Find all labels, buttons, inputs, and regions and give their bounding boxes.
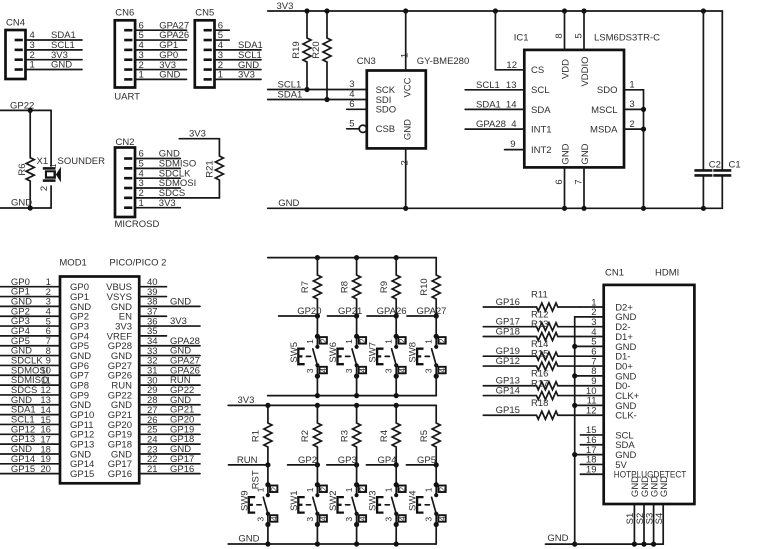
svg-text:1: 1 bbox=[49, 163, 58, 168]
svg-text:R1: R1 bbox=[251, 430, 262, 442]
svg-text:2: 2 bbox=[438, 338, 447, 343]
svg-text:3: 3 bbox=[629, 99, 634, 110]
svg-text:INT1: INT1 bbox=[531, 125, 552, 136]
svg-text:4: 4 bbox=[270, 516, 279, 521]
svg-text:GND: GND bbox=[238, 533, 259, 544]
svg-text:2: 2 bbox=[629, 119, 634, 130]
MOD1 pin 20 wire net GP15 bbox=[0, 464, 94, 480]
MOD1 pin 17 wire net GP13 bbox=[0, 434, 94, 450]
svg-text:C2: C2 bbox=[709, 159, 721, 170]
CN1 pin 19 stub bbox=[580, 465, 686, 481]
resistor R7 bbox=[300, 258, 321, 316]
svg-text:R15: R15 bbox=[531, 349, 548, 360]
CN1 pin 17 stub bbox=[572, 445, 636, 461]
svg-text:R9: R9 bbox=[379, 281, 390, 293]
svg-text:3: 3 bbox=[384, 368, 394, 373]
wire net RUN bbox=[229, 455, 271, 468]
svg-text:IC1: IC1 bbox=[514, 33, 529, 44]
svg-text:2: 2 bbox=[39, 186, 50, 191]
svg-text:3V3: 3V3 bbox=[159, 198, 176, 209]
IC1 pin 14 SDA wire net SDA1 bbox=[465, 100, 524, 111]
wire net GP17 with resistor R12 bbox=[483, 309, 580, 330]
svg-text:2: 2 bbox=[359, 486, 368, 491]
switch SW8 bbox=[408, 316, 448, 396]
capacitor C1 bbox=[713, 11, 740, 208]
svg-text:GP14: GP14 bbox=[496, 386, 520, 397]
switch SW1 bbox=[289, 465, 329, 544]
svg-text:2: 2 bbox=[438, 486, 447, 491]
svg-text:SW1: SW1 bbox=[289, 490, 300, 511]
junction dots on GND rail bbox=[403, 206, 706, 211]
wire net GP12 with resistor R15 bbox=[483, 349, 580, 370]
svg-text:SCL: SCL bbox=[531, 85, 549, 96]
resistor R6 bbox=[17, 110, 34, 208]
svg-text:2: 2 bbox=[398, 338, 407, 343]
svg-text:5: 5 bbox=[574, 33, 585, 38]
MOD1 pin 16 wire net GP12 bbox=[0, 424, 94, 440]
CN3 pin 6 SDO stub bbox=[347, 99, 367, 110]
svg-text:SDO: SDO bbox=[597, 85, 618, 96]
svg-text:RST: RST bbox=[251, 470, 262, 489]
CN1 pin 10 stub bbox=[580, 386, 639, 402]
svg-text:SDA1: SDA1 bbox=[278, 90, 303, 101]
svg-text:12: 12 bbox=[506, 60, 517, 71]
svg-text:GP5: GP5 bbox=[417, 455, 436, 466]
upper switch block bottom rail bbox=[268, 393, 437, 398]
svg-text:R4: R4 bbox=[379, 430, 390, 442]
svg-text:CN3: CN3 bbox=[357, 56, 376, 67]
resistor R5 bbox=[419, 405, 440, 465]
IC1 pin 6 GND wire bbox=[554, 167, 565, 208]
wire net GP21 bbox=[327, 306, 362, 319]
svg-text:1: 1 bbox=[384, 339, 394, 344]
IC1 pin 7 GND wire bbox=[573, 167, 584, 208]
svg-text:1: 1 bbox=[629, 80, 634, 91]
CN1 pin 8 stub bbox=[572, 366, 636, 382]
module CN3 GY-BME280 bbox=[357, 56, 469, 148]
svg-text:GP15: GP15 bbox=[70, 469, 94, 480]
wire net GP2 bbox=[288, 455, 320, 468]
CN1 pin 15 stub bbox=[580, 425, 633, 441]
power rail 3V3 (top) bbox=[268, 1, 723, 12]
svg-text:12: 12 bbox=[586, 406, 597, 417]
svg-text:4: 4 bbox=[438, 516, 447, 521]
resistor R1 bbox=[251, 405, 272, 465]
CN1 pin 9 stub bbox=[580, 376, 630, 392]
svg-text:1: 1 bbox=[218, 70, 223, 81]
ground rail GND (switch block) bbox=[228, 533, 436, 546]
IC1 pin 3 MSCL wire bbox=[624, 99, 646, 112]
MOD1 pin 27 wire net GP21 bbox=[108, 405, 200, 421]
MOD1 pin 34 wire net GPA28 bbox=[108, 336, 200, 352]
MOD1 pin 25 wire net GP19 bbox=[108, 424, 200, 440]
svg-text:GPA27: GPA27 bbox=[417, 306, 447, 317]
svg-text:4: 4 bbox=[319, 368, 328, 373]
CN3 pin 5 CSB stub with inversion bubble bbox=[347, 118, 367, 132]
MOD1 pin 24 wire net GP18 bbox=[108, 434, 200, 450]
svg-text:3: 3 bbox=[424, 368, 434, 373]
svg-text:GP15: GP15 bbox=[11, 464, 35, 475]
svg-text:GPA28: GPA28 bbox=[476, 119, 506, 130]
CN1 pin 3 stub bbox=[580, 317, 630, 333]
svg-text:CN6: CN6 bbox=[115, 8, 134, 19]
svg-text:VDD: VDD bbox=[560, 59, 571, 79]
MOD1 pin 15 wire net SCL1 bbox=[0, 415, 94, 431]
MOD1 pin 5 wire net GP3 bbox=[0, 316, 89, 332]
svg-text:UART: UART bbox=[114, 92, 140, 103]
svg-text:1: 1 bbox=[139, 198, 144, 209]
ground rail GND (HDMI) bbox=[546, 533, 664, 544]
svg-text:4: 4 bbox=[319, 516, 328, 521]
resistor R10 bbox=[419, 258, 440, 316]
CN1 shield pin S3 GND bbox=[644, 476, 660, 547]
MOD1 pin 14 wire net SDA1 bbox=[0, 405, 94, 421]
upper switch block top rail bbox=[268, 255, 436, 260]
connector CN1 HDMI box bbox=[604, 268, 695, 504]
MOD1 pin 28 wire net GND bbox=[111, 395, 200, 411]
MOD1 pin 12 wire net SDCS bbox=[0, 385, 89, 401]
svg-text:SW9: SW9 bbox=[239, 490, 250, 511]
svg-text:GP12: GP12 bbox=[496, 356, 520, 367]
MOD1 pin 2 wire net GP1 bbox=[0, 287, 89, 303]
svg-text:S4: S4 bbox=[654, 513, 665, 525]
svg-text:1: 1 bbox=[344, 339, 354, 344]
svg-text:1: 1 bbox=[139, 70, 144, 81]
svg-text:R8: R8 bbox=[339, 281, 350, 293]
svg-text:MSDA: MSDA bbox=[590, 125, 618, 136]
switch SW4 bbox=[408, 465, 448, 544]
switch SW6 bbox=[328, 316, 368, 396]
svg-text:9: 9 bbox=[510, 139, 515, 150]
MOD1 pin 10 wire net SDMOSI bbox=[0, 365, 89, 381]
svg-text:GND: GND bbox=[170, 296, 191, 307]
resistor R21 pull-up on SDCS bbox=[204, 139, 223, 198]
svg-text:3V3: 3V3 bbox=[170, 316, 187, 327]
svg-text:14: 14 bbox=[506, 100, 517, 111]
svg-text:SW5: SW5 bbox=[289, 342, 300, 363]
svg-text:R20: R20 bbox=[311, 41, 322, 58]
svg-text:R18: R18 bbox=[531, 398, 548, 409]
svg-text:R11: R11 bbox=[531, 290, 548, 301]
wire net GPA27 bbox=[407, 306, 446, 319]
MOD1 pin 38 wire net GND bbox=[111, 296, 200, 312]
svg-text:3: 3 bbox=[384, 517, 394, 522]
svg-text:6: 6 bbox=[554, 179, 565, 184]
svg-text:MSCL: MSCL bbox=[591, 105, 617, 116]
svg-text:3V3: 3V3 bbox=[238, 70, 255, 81]
svg-text:2: 2 bbox=[398, 486, 407, 491]
MOD1 pin 4 wire net GP2 bbox=[0, 306, 89, 322]
svg-text:SOUNDER: SOUNDER bbox=[58, 156, 106, 167]
switch SW3 bbox=[368, 465, 408, 544]
resistor R19 bbox=[291, 11, 311, 90]
svg-text:GND: GND bbox=[659, 476, 670, 497]
svg-text:R21: R21 bbox=[204, 160, 215, 177]
svg-text:3: 3 bbox=[305, 517, 315, 522]
CN3 pin 2 GND wire bbox=[399, 148, 410, 208]
MOD1 pin 31 wire net GPA26 bbox=[108, 365, 200, 381]
resistor R3 bbox=[339, 405, 360, 465]
svg-text:3V3: 3V3 bbox=[277, 1, 294, 12]
wire net GP20 bbox=[279, 306, 322, 319]
MOD1 pin 32 wire net GPA27 bbox=[108, 356, 200, 372]
svg-text:1: 1 bbox=[424, 487, 434, 492]
wire net GP15 with resistor R18 bbox=[483, 398, 580, 419]
svg-text:GND: GND bbox=[580, 143, 591, 164]
CN1 pin 2 stub bbox=[575, 307, 637, 544]
connector CN6 bbox=[114, 8, 189, 103]
resistor R9 bbox=[379, 258, 400, 316]
svg-text:1: 1 bbox=[30, 60, 35, 71]
svg-text:CS: CS bbox=[531, 65, 544, 76]
svg-text:2: 2 bbox=[399, 160, 410, 165]
svg-text:MICROSD: MICROSD bbox=[115, 219, 160, 230]
svg-text:3: 3 bbox=[255, 517, 265, 522]
wire net GP5 bbox=[406, 455, 438, 468]
svg-text:VCC: VCC bbox=[402, 77, 413, 97]
wire net GP16 with resistor R11 bbox=[483, 290, 580, 311]
svg-text:R6: R6 bbox=[17, 163, 28, 175]
svg-text:R17: R17 bbox=[531, 378, 548, 389]
wire net GP13 with resistor R16 bbox=[483, 368, 580, 389]
svg-text:7: 7 bbox=[573, 179, 584, 184]
CN1 pin 6 stub bbox=[580, 347, 630, 363]
svg-text:GND: GND bbox=[547, 533, 568, 544]
svg-text:3V3: 3V3 bbox=[189, 128, 206, 139]
MOD1 pin 11 wire net SDMISO bbox=[0, 375, 89, 391]
CN1 pin 7 stub bbox=[580, 356, 633, 372]
IC1 pin 1 SDO wire to ground bus bbox=[624, 80, 644, 209]
svg-text:1: 1 bbox=[344, 487, 354, 492]
connector CN4 bbox=[6, 17, 83, 79]
MOD1 pin 18 wire net GND bbox=[0, 444, 91, 460]
svg-text:LSM6DS3TR-C: LSM6DS3TR-C bbox=[594, 33, 660, 44]
svg-text:CN2: CN2 bbox=[116, 137, 135, 148]
svg-text:GP4: GP4 bbox=[378, 455, 397, 466]
MOD1 pin 37 wire bbox=[119, 307, 167, 323]
MOD1 pin 23 wire net GND bbox=[111, 444, 200, 460]
svg-text:3V3: 3V3 bbox=[238, 395, 255, 406]
svg-text:2: 2 bbox=[359, 338, 368, 343]
switch SW7 bbox=[368, 316, 408, 396]
wire net GP3 bbox=[327, 455, 359, 468]
resistor R4 bbox=[379, 405, 400, 465]
svg-text:R10: R10 bbox=[419, 278, 430, 295]
svg-text:CN5: CN5 bbox=[195, 8, 214, 19]
node GP22 wire bbox=[0, 100, 51, 113]
svg-text:C1: C1 bbox=[729, 159, 741, 170]
svg-text:GPA26: GPA26 bbox=[377, 306, 407, 317]
svg-text:R2: R2 bbox=[300, 430, 311, 442]
MOD1 pin 6 wire net GP4 bbox=[0, 326, 89, 342]
svg-text:GP16: GP16 bbox=[170, 464, 194, 475]
MOD1 pin 1 wire net GP0 bbox=[0, 277, 89, 293]
svg-text:SCL1: SCL1 bbox=[476, 80, 500, 91]
svg-text:19: 19 bbox=[586, 465, 597, 476]
svg-text:GP16: GP16 bbox=[496, 297, 520, 308]
CN1 shield pin S2 GND bbox=[635, 476, 651, 547]
svg-text:PICO/PICO 2: PICO/PICO 2 bbox=[109, 258, 166, 269]
IC1 pin 8 VDD wire to 3V3 bbox=[554, 11, 565, 50]
svg-text:R19: R19 bbox=[291, 41, 302, 58]
IC1 pin 13 SCL wire net SCL1 bbox=[465, 80, 524, 91]
svg-text:GP18: GP18 bbox=[496, 327, 520, 338]
svg-text:3: 3 bbox=[344, 368, 354, 373]
svg-text:13: 13 bbox=[506, 80, 517, 91]
svg-text:RUN: RUN bbox=[237, 455, 258, 466]
3V3 stub for R21 bbox=[179, 128, 219, 139]
svg-text:INT2: INT2 bbox=[531, 145, 552, 156]
svg-text:VDDIO: VDDIO bbox=[580, 56, 591, 86]
power rail 3V3 (switch block) bbox=[228, 395, 436, 408]
svg-text:CN4: CN4 bbox=[6, 17, 25, 28]
wire net GP4 bbox=[366, 455, 398, 468]
CN1 pin 12 stub bbox=[580, 406, 636, 422]
IC1 pin 4 INT1 wire net GPA28 bbox=[465, 119, 524, 130]
svg-text:4: 4 bbox=[511, 119, 516, 130]
svg-text:4: 4 bbox=[398, 516, 407, 521]
ground rail GND (top section) bbox=[268, 198, 723, 209]
svg-text:GP16: GP16 bbox=[108, 469, 132, 480]
svg-text:3: 3 bbox=[305, 368, 315, 373]
svg-text:CSB: CSB bbox=[376, 124, 396, 135]
svg-text:GP15: GP15 bbox=[496, 405, 520, 416]
svg-text:GP2: GP2 bbox=[298, 455, 317, 466]
svg-text:6: 6 bbox=[349, 99, 354, 110]
svg-text:R5: R5 bbox=[419, 430, 430, 442]
CN1 pin 4 stub bbox=[580, 327, 633, 343]
MOD1 pin 21 wire net GP16 bbox=[108, 464, 200, 480]
svg-text:3: 3 bbox=[344, 517, 354, 522]
MOD1 pin 3 wire net GND bbox=[0, 296, 91, 312]
CN1 pin 5 stub bbox=[572, 337, 636, 353]
CN1 pin 1 stub bbox=[580, 297, 633, 313]
svg-text:1: 1 bbox=[424, 339, 434, 344]
IC IC1 LSM6DS3TR-C box bbox=[514, 33, 660, 168]
MOD1 pin 33 wire net GND bbox=[111, 346, 200, 362]
svg-text:R3: R3 bbox=[339, 430, 350, 442]
CN1 pin 16 stub bbox=[580, 435, 635, 451]
connector CN5 bbox=[195, 8, 263, 88]
MOD1 pin 8 wire net GND bbox=[0, 346, 91, 362]
svg-text:CLK-: CLK- bbox=[615, 411, 637, 422]
svg-text:GP3: GP3 bbox=[338, 455, 357, 466]
svg-text:2: 2 bbox=[270, 486, 279, 491]
svg-text:SW3: SW3 bbox=[368, 490, 379, 511]
svg-text:SW7: SW7 bbox=[368, 342, 379, 363]
svg-text:SW6: SW6 bbox=[328, 342, 339, 363]
wire net GP14 with resistor R17 bbox=[483, 378, 580, 399]
svg-text:20: 20 bbox=[40, 464, 51, 475]
svg-text:MOD1: MOD1 bbox=[59, 258, 86, 269]
CN1 pin 18 stub bbox=[580, 455, 627, 471]
svg-text:4: 4 bbox=[359, 516, 368, 521]
svg-text:4: 4 bbox=[359, 368, 368, 373]
module MOD1 PICO/PICO 2 box bbox=[59, 258, 166, 484]
svg-text:8: 8 bbox=[554, 33, 565, 38]
ground wire GND (sounder) bbox=[0, 197, 51, 210]
MOD1 pin 36 wire net 3V3 bbox=[115, 316, 200, 332]
IC1 pin 12 CS wire to 3V3 bbox=[495, 11, 524, 71]
wire net GPA26 bbox=[367, 306, 407, 319]
svg-text:X1: X1 bbox=[37, 156, 49, 167]
MOD1 pin 22 wire net GP17 bbox=[108, 454, 200, 470]
svg-text:SDA: SDA bbox=[531, 105, 551, 116]
svg-text:SDO: SDO bbox=[376, 105, 397, 116]
svg-text:3: 3 bbox=[424, 517, 434, 522]
CN1 pin 11 stub bbox=[572, 396, 636, 412]
junction dots on 3V3 rail bbox=[304, 8, 706, 13]
wire net SDA1 to CN3 SDI bbox=[268, 90, 367, 103]
MOD1 pin 39 wire bbox=[107, 287, 167, 303]
svg-text:CN1: CN1 bbox=[605, 268, 624, 279]
CN1 shield pin S1 GND bbox=[625, 476, 641, 547]
connector CN2 bbox=[115, 137, 220, 230]
MOD1 pin 9 wire net SDCLK bbox=[0, 356, 89, 372]
svg-text:4: 4 bbox=[398, 368, 407, 373]
svg-text:GND: GND bbox=[560, 143, 571, 164]
resistor R2 bbox=[300, 405, 321, 465]
svg-text:21: 21 bbox=[147, 464, 158, 475]
wire net GP18 with resistor R13 bbox=[483, 319, 580, 340]
svg-text:5: 5 bbox=[349, 118, 354, 129]
svg-text:GND: GND bbox=[402, 119, 413, 140]
capacitor C2 bbox=[694, 11, 721, 208]
svg-text:1: 1 bbox=[305, 487, 315, 492]
switch SW5 bbox=[289, 316, 329, 396]
IC1 pin 9 INT2 stub bbox=[505, 139, 525, 150]
svg-text:GY-BME280: GY-BME280 bbox=[417, 56, 469, 67]
svg-text:SW8: SW8 bbox=[408, 342, 419, 363]
CN1 ground bus junction at GND rail bbox=[572, 542, 577, 547]
MOD1 pin 30 wire net RUN bbox=[111, 375, 200, 391]
svg-text:1: 1 bbox=[384, 487, 394, 492]
MOD1 pin 26 wire net GP20 bbox=[108, 415, 200, 431]
svg-text:GND: GND bbox=[51, 60, 72, 71]
IC1 pin 2 MSDA wire bbox=[624, 119, 646, 132]
switch SW9 RST bbox=[239, 465, 279, 544]
switch SW2 bbox=[328, 465, 368, 544]
IC1 pin 5 VDDIO wire to 3V3 bbox=[574, 11, 585, 50]
resistor R20 bbox=[311, 11, 331, 100]
wire net SCL1 to CN3 SCK bbox=[268, 80, 367, 93]
svg-text:SW4: SW4 bbox=[408, 490, 419, 511]
svg-text:4: 4 bbox=[438, 368, 447, 373]
MOD1 pin 29 wire net GP22 bbox=[108, 385, 200, 401]
MOD1 pin 35 wire bbox=[107, 326, 167, 342]
svg-text:1: 1 bbox=[399, 53, 410, 58]
resistor R8 bbox=[339, 258, 360, 316]
CN1 shield pin S4 GND bbox=[654, 476, 670, 544]
svg-text:HDMI: HDMI bbox=[655, 268, 679, 279]
svg-text:1: 1 bbox=[305, 339, 315, 344]
wire net GP19 with resistor R14 bbox=[483, 339, 580, 360]
CN3 pin 1 VCC wire to 3V3 bbox=[399, 11, 410, 71]
svg-text:R7: R7 bbox=[300, 281, 311, 293]
MOD1 pin 7 wire net GP5 bbox=[0, 336, 89, 352]
svg-text:GND: GND bbox=[159, 70, 180, 81]
MOD1 pin 40 wire bbox=[106, 277, 166, 293]
svg-text:SW2: SW2 bbox=[328, 490, 339, 511]
MOD1 pin 13 wire net GND bbox=[0, 395, 91, 411]
svg-text:SDA1: SDA1 bbox=[476, 100, 501, 111]
svg-text:GND: GND bbox=[278, 198, 299, 209]
svg-text:R13: R13 bbox=[531, 319, 548, 330]
sounder X1 bbox=[37, 110, 106, 208]
MOD1 pin 19 wire net GP14 bbox=[0, 454, 94, 470]
